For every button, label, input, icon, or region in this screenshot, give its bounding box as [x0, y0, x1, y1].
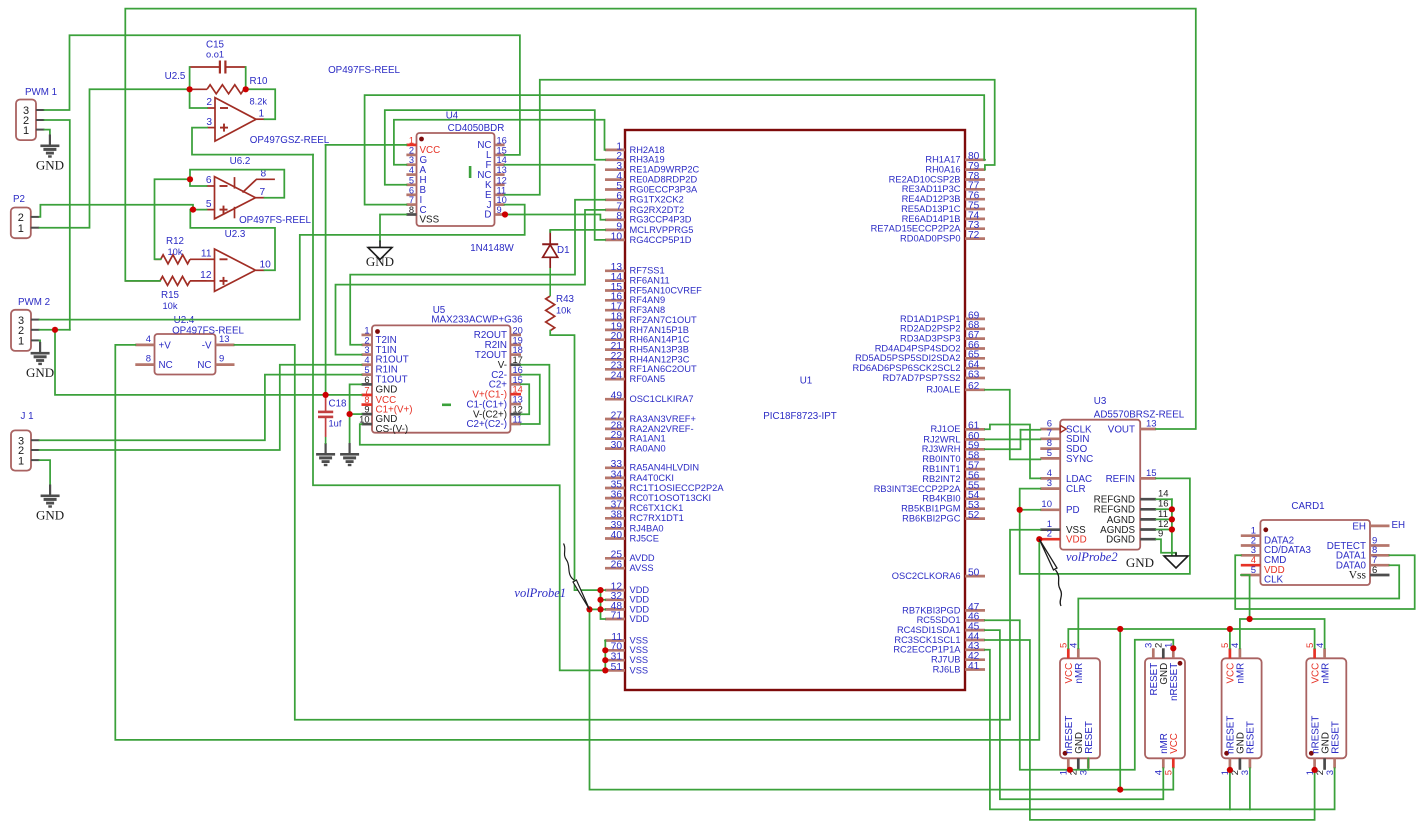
ground GND J1 — [41, 485, 60, 508]
U1 pin 25 AVDD — [605, 550, 655, 564]
U1 pin 34 RA4T0CKI — [605, 469, 674, 483]
U5 pin 20 R2OUT — [474, 325, 523, 341]
svg-text:8.2k: 8.2k — [250, 97, 268, 107]
wire net J1.1 gnd — [40, 460, 51, 494]
wire U6 RESET riser — [1087, 758, 1089, 770]
buffer U4 CD4050BDR — [417, 111, 505, 227]
U1 pin 26 AVSS — [605, 560, 654, 574]
junction VDD pin12 node — [597, 587, 603, 593]
U4 pin 11 E — [485, 185, 506, 201]
U1 pin 73 RE7AD15ECCP2P2A — [871, 220, 985, 234]
svg-text:4: 4 — [409, 165, 414, 175]
svg-text:13: 13 — [219, 334, 230, 345]
U1 pin 7 RG2RX2DT2 — [605, 201, 684, 215]
PWM1 pin 2 — [23, 115, 45, 127]
U1 pin 32 VDD — [605, 591, 649, 605]
wire net RC5SDO1 reset-A — [985, 620, 1173, 770]
svg-text:5: 5 — [1047, 448, 1052, 459]
U1 pin 21 RH5AN13P3B — [605, 341, 689, 355]
U2.3 pin stubs — [200, 248, 271, 281]
svg-text:2: 2 — [206, 97, 212, 108]
U3 pin 15 REFIN — [1106, 468, 1157, 485]
svg-text:RE2AD10CSP2B: RE2AD10CSP2B — [889, 174, 961, 184]
wire net U2.5 in+ to VSS — [192, 128, 313, 155]
U1 pin 36 RC0T1OSOT13CKI — [605, 490, 711, 504]
P2 pin 2 — [18, 212, 40, 224]
svg-text:10k: 10k — [556, 306, 571, 316]
svg-text:VDD: VDD — [630, 595, 650, 605]
wire VDD bus — [601, 590, 606, 619]
PWM1 pin 1 — [23, 125, 45, 137]
svg-text:13: 13 — [513, 395, 523, 405]
svg-text:5: 5 — [206, 199, 212, 210]
svg-text:1: 1 — [23, 125, 29, 137]
U1 pin 16 RF4AN9 — [605, 292, 665, 306]
svg-text:U2.4: U2.4 — [174, 315, 195, 326]
U1 pin 47 RB7KBI3PGD — [902, 602, 985, 616]
svg-text:RC3SCK1SCL1: RC3SCK1SCL1 — [894, 635, 960, 645]
U3 pin 14 REFGND — [1094, 489, 1169, 506]
U1 pin 1 RH2A18 — [605, 141, 665, 155]
resistor R15 10k — [160, 276, 190, 285]
U5 pin 15 C2+ — [489, 375, 523, 391]
U8 pin-1 indicator dot — [1224, 751, 1229, 756]
U1 pin 53 RB5KBI1PGM — [901, 500, 985, 513]
U3 pin 7 SDIN — [1040, 428, 1089, 445]
junction U3 gnd bus node 12 — [1169, 526, 1175, 532]
resistor R10 8.2k — [207, 85, 244, 94]
U8 pin 5 VCC — [1220, 643, 1237, 684]
wire net PWM2.3 to U4 J — [40, 205, 525, 320]
connector P2 — [11, 194, 31, 238]
svg-text:11: 11 — [201, 248, 212, 259]
ground GND C18 — [316, 443, 335, 466]
junction U5 GND node — [347, 411, 353, 417]
U1 pin 14 RF6AN11 — [605, 272, 670, 286]
svg-text:8: 8 — [146, 354, 151, 365]
svg-text:VDD: VDD — [1066, 535, 1087, 546]
U1 pin 57 RB1INT1 — [922, 461, 985, 475]
U1 pin 80 RH1A17 — [925, 151, 985, 165]
U9 pin 3 RESET — [1325, 721, 1342, 775]
U3 pin 3 CLR — [1040, 478, 1085, 495]
junction VDD pin48 node — [597, 606, 603, 612]
U4 pin 7 C — [406, 195, 426, 216]
U4 pin 16 NC — [477, 135, 507, 151]
wire U8 RESET drop — [1249, 768, 1251, 809]
svg-text:RH4AN12P3C: RH4AN12P3C — [630, 354, 690, 364]
svg-text:MCLRVPPRG5: MCLRVPPRG5 — [630, 225, 694, 235]
wire U8 nRESET drop — [1229, 770, 1231, 810]
wire net U4 A to RH2A18 — [394, 120, 605, 165]
U1 pin 56 RB2INT2 — [922, 470, 985, 484]
junction VCC bus U8 node — [1227, 626, 1233, 632]
wire net RJ1OE to SCLK LDAC — [985, 425, 1040, 479]
probe volProbe2 — [1039, 539, 1061, 606]
junction U3 gnd bus node 16 — [1169, 506, 1175, 512]
wire net RX2 to R1OUT — [336, 210, 606, 355]
U1 pin 42 RJ7UB — [931, 651, 985, 665]
svg-text:C2+(C2-): C2+(C2-) — [466, 419, 507, 430]
svg-text:VCC: VCC — [1169, 733, 1180, 754]
svg-text:U2.5: U2.5 — [165, 71, 186, 82]
U1 pin 70 VSS — [605, 642, 648, 656]
svg-text:GND: GND — [36, 508, 64, 523]
U1 pin 54 RB4KBI0 — [922, 490, 985, 504]
svg-text:12: 12 — [200, 270, 212, 281]
svg-text:71: 71 — [611, 610, 623, 621]
wire AGNDS tap — [1156, 529, 1172, 531]
svg-text:RJ4BA0: RJ4BA0 — [630, 523, 664, 533]
svg-text:8: 8 — [409, 205, 414, 215]
U8 pin 1 nRESET — [1220, 716, 1237, 776]
svg-text:14: 14 — [497, 155, 507, 165]
svg-text:15: 15 — [1146, 468, 1157, 479]
svg-text:CS-(V-): CS-(V-) — [376, 424, 409, 435]
svg-text:9: 9 — [364, 405, 369, 415]
ground GND U5 — [340, 443, 359, 466]
U4 pin 9 D — [484, 205, 504, 221]
svg-text:REFIN: REFIN — [1106, 474, 1135, 485]
svg-text:RA5AN4HLVDIN: RA5AN4HLVDIN — [630, 463, 700, 473]
U5 pin 10 CS-(V-) — [359, 415, 408, 436]
svg-text:CLR: CLR — [1066, 484, 1086, 495]
U1 pin 52 RB6KBI2PGC — [902, 510, 985, 524]
U4 pin-1 indicator dot — [419, 137, 424, 142]
wire net U2.3 out to in+ — [190, 210, 275, 271]
svg-text:CD4050BDR: CD4050BDR — [448, 123, 505, 134]
CARD1 pin 9 DETECT — [1327, 535, 1390, 552]
U3 pin 12 AGNDS — [1100, 519, 1168, 536]
junction CLK nMR node — [1247, 616, 1253, 622]
wire net RC2ECCP1P1A reset-CD — [985, 650, 1335, 810]
svg-text:RD0AD0PSP0: RD0AD0PSP0 — [900, 234, 960, 244]
svg-text:RE0AD8RDP2D: RE0AD8RDP2D — [630, 175, 698, 185]
U2.5 pin stubs — [206, 97, 264, 128]
U1 pin 66 RD4AD4PSP4SDO2 — [875, 340, 985, 354]
svg-text:3: 3 — [1079, 770, 1090, 775]
svg-text:GND: GND — [26, 365, 54, 380]
svg-text:1: 1 — [259, 108, 265, 119]
wire net U6.2 loop — [190, 170, 284, 198]
U1 pin 55 RB3INT3ECCP2P2A — [874, 480, 985, 494]
svg-text:volProbe1: volProbe1 — [514, 586, 566, 600]
svg-text:RJ5CE: RJ5CE — [630, 533, 659, 543]
CARD1 pin 2 CD/DATA3 — [1241, 535, 1312, 556]
U4 pin 6 I — [406, 185, 422, 206]
U4 pin 15 L — [486, 145, 507, 161]
svg-text:U1: U1 — [800, 376, 813, 387]
CARD1 pin 5 CLK — [1241, 565, 1284, 586]
svg-text:RB6KBI2PGC: RB6KBI2PGC — [902, 514, 961, 524]
svg-text:10: 10 — [1041, 499, 1052, 510]
svg-text:11: 11 — [513, 415, 523, 425]
wire VDD pin48 tap — [601, 608, 606, 610]
wire net nMR-A to DATA0 — [1078, 565, 1399, 648]
svg-text:J 1: J 1 — [20, 411, 33, 422]
U1 pin 20 RH6AN14P1C — [605, 331, 690, 345]
U5 pin 1 T2IN — [362, 325, 397, 346]
svg-text:1: 1 — [18, 455, 24, 467]
svg-text:OSC1CLKIRA7: OSC1CLKIRA7 — [630, 394, 694, 404]
svg-text:12: 12 — [513, 405, 523, 415]
U1 pin 67 RD3AD3PSP3 — [900, 330, 985, 344]
wire net RC4SDI1SDA1 to U7 nMR — [985, 630, 1163, 799]
svg-text:RH7AN15P1B: RH7AN15P1B — [630, 325, 689, 335]
svg-text:52: 52 — [968, 510, 980, 521]
junction U4 D node — [502, 211, 508, 217]
svg-text:1: 1 — [364, 325, 369, 335]
svg-text:RC1T1OSIECCP2P2A: RC1T1OSIECCP2P2A — [630, 483, 725, 493]
svg-text:EH: EH — [1392, 520, 1406, 531]
svg-text:RESET: RESET — [1084, 721, 1095, 754]
ground GND U3 — [1164, 553, 1188, 569]
svg-text:NC: NC — [159, 360, 173, 371]
PWM2 pin 1 — [18, 336, 40, 348]
svg-text:OP497FS-REEL: OP497FS-REEL — [328, 65, 400, 76]
svg-text:VSS: VSS — [630, 665, 649, 675]
wire nMR C-D link — [1240, 619, 1325, 648]
svg-text:1N4148W: 1N4148W — [470, 243, 514, 254]
svg-text:RG2RX2DT2: RG2RX2DT2 — [630, 205, 685, 215]
svg-text:RF1AN6C2OUT: RF1AN6C2OUT — [630, 364, 697, 374]
svg-text:CLK: CLK — [1264, 575, 1284, 586]
svg-text:volProbe2: volProbe2 — [1066, 550, 1118, 564]
junction VSS pin70 node — [602, 647, 608, 653]
U5 pin 17 V- — [498, 355, 523, 371]
junction U9 nRESET node — [1312, 767, 1318, 773]
wire VCC bus of reset chips — [1068, 629, 1314, 648]
U4 pin 1 VCC — [406, 135, 440, 156]
CARD1 pin 8 DATA1 — [1336, 545, 1390, 562]
svg-text:1: 1 — [409, 135, 414, 145]
U7 pin 2 GND — [1154, 643, 1171, 685]
wire net U4 F to RG4 — [505, 165, 605, 240]
svg-text:RG4CCP5P1D: RG4CCP5P1D — [630, 235, 692, 245]
wire VDD probe tap — [590, 608, 606, 610]
svg-text:6: 6 — [206, 175, 212, 186]
U5 net-label dash — [442, 404, 451, 407]
diode D1 1N4148W — [470, 230, 569, 268]
svg-text:5: 5 — [364, 365, 369, 375]
svg-text:3: 3 — [364, 345, 369, 355]
U1 pin 44 RC3SCK1SCL1 — [894, 631, 985, 645]
svg-text:AVSS: AVSS — [630, 563, 654, 573]
svg-text:RJ0ALE: RJ0ALE — [926, 385, 960, 395]
svg-text:RF6AN11: RF6AN11 — [630, 276, 670, 286]
svg-text:10: 10 — [260, 259, 272, 270]
PWM2 pin 3 — [18, 315, 40, 327]
svg-text:RF4AN9: RF4AN9 — [630, 295, 666, 305]
U1 pin 28 RA2AN2VREF- — [605, 420, 694, 434]
U3 pin 4 LDAC — [1040, 468, 1092, 485]
junction U6.2 in+ node — [190, 207, 196, 213]
svg-text:RG0ECCP3P3A: RG0ECCP3P3A — [630, 184, 698, 194]
junction U6 nRESET node — [1067, 767, 1073, 773]
wire net U4 D to RG3 — [505, 215, 605, 220]
svg-text:1uf: 1uf — [329, 419, 342, 429]
U3 pin 9 DGND — [1106, 529, 1163, 546]
svg-text:AD5570BRSZ-REEL: AD5570BRSZ-REEL — [1094, 410, 1185, 421]
svg-text:10k: 10k — [163, 301, 178, 311]
svg-text:RJ1OE: RJ1OE — [931, 424, 961, 434]
U3 pin 5 SYNC — [1040, 448, 1093, 465]
svg-text:RJ7UB: RJ7UB — [931, 655, 960, 665]
svg-text:nMR: nMR — [1320, 663, 1331, 684]
U1 pin 9 MCLRVPPRG5 — [605, 221, 693, 235]
svg-text:4: 4 — [364, 355, 369, 365]
U6 pin 4 nMR — [1069, 643, 1086, 684]
U1 pin 37 RC6TX1CK1 — [605, 500, 683, 513]
wire net RC3SCK1SCL1 to U9 nRESET — [985, 640, 1315, 820]
svg-text:CARD1: CARD1 — [1291, 501, 1324, 512]
svg-text:20: 20 — [513, 325, 523, 335]
U1 pin 10 RG4CCP5P1D — [605, 231, 692, 245]
svg-text:RE4AD12P3B: RE4AD12P3B — [902, 194, 961, 204]
svg-text:51: 51 — [611, 662, 623, 673]
U1 pin 40 RJ5CE — [605, 530, 659, 544]
U4 pin 12 K — [485, 175, 507, 191]
U1 pin 59 RJ3WRH — [922, 441, 985, 455]
wire SCLK tap — [1021, 429, 1041, 431]
svg-text:RE3AD11P3C: RE3AD11P3C — [902, 184, 961, 194]
U1 pin 30 RA0AN0 — [605, 440, 666, 454]
svg-text:RG3CCP4P3D: RG3CCP4P3D — [630, 215, 692, 225]
U7 pin 4 nMR — [1154, 733, 1171, 775]
svg-text:OSC2CLKORA6: OSC2CLKORA6 — [892, 571, 961, 581]
U7 pin 1 nRESET — [1164, 643, 1181, 701]
U5 pin 4 R1IN — [362, 355, 398, 376]
svg-text:RD5AD5PSP5SDI2SDA2: RD5AD5PSP5SDI2SDA2 — [855, 353, 960, 363]
ground GND U4 — [368, 241, 392, 260]
svg-text:RH5AN13P3B: RH5AN13P3B — [630, 345, 689, 355]
wire AGND tap — [1156, 518, 1172, 520]
svg-text:49: 49 — [611, 391, 623, 402]
svg-text:RJ2WRL: RJ2WRL — [923, 434, 960, 444]
svg-text:VOUT: VOUT — [1108, 424, 1135, 435]
U1 pin 3 RE1AD9WRP2C — [605, 161, 700, 175]
PWM1 pin 3 — [23, 105, 45, 117]
svg-text:RD7AD7PSP7SS2: RD7AD7PSP7SS2 — [882, 373, 960, 383]
wire REFGND14 tap — [1156, 498, 1172, 500]
svg-text:RA1AN1: RA1AN1 — [630, 434, 666, 444]
U5 pin 3 R1OUT — [362, 345, 409, 366]
U5 pin 6 GND — [362, 375, 398, 396]
svg-text:5: 5 — [1251, 565, 1256, 576]
svg-text:9: 9 — [219, 354, 224, 365]
svg-text:RH1A17: RH1A17 — [925, 155, 960, 165]
svg-text:19: 19 — [513, 335, 523, 345]
wire net U2.5 out loop — [246, 89, 276, 119]
wire net -V — [235, 345, 1041, 720]
U1 pin 61 RJ1OE — [931, 421, 985, 435]
U9 pin-1 indicator dot — [1309, 751, 1314, 756]
svg-text:Vss: Vss — [1349, 569, 1367, 581]
svg-text:GND: GND — [376, 384, 398, 395]
svg-text:VDD: VDD — [630, 614, 650, 624]
wire net RJ2WRL to SDIN — [985, 438, 1040, 440]
wire net TX2 to T1IN — [350, 200, 605, 345]
U1 pin 58 RB0INT0 — [922, 451, 985, 465]
wire VSS bus — [604, 641, 606, 671]
svg-text:RF3AN8: RF3AN8 — [630, 305, 666, 315]
U1 pin 29 RA1AN1 — [605, 430, 666, 444]
svg-text:D: D — [484, 210, 491, 221]
wire DGND jog — [1156, 539, 1176, 556]
U2.4 pin 8 NC — [135, 354, 172, 371]
reset supervisor U7 — [1145, 658, 1185, 758]
svg-text:1: 1 — [18, 223, 24, 235]
reset supervisor U6 — [1060, 658, 1100, 758]
U3 SCLK clock mark — [1060, 425, 1066, 432]
U9 pin 1 nRESET — [1305, 716, 1322, 776]
svg-text:PIC18F8723-IPT: PIC18F8723-IPT — [763, 411, 837, 422]
svg-text:RF5AN10CVREF: RF5AN10CVREF — [630, 285, 703, 295]
junction VDD rail tie node — [1117, 787, 1123, 793]
U6 pin 5 VCC — [1059, 643, 1076, 684]
svg-text:RH0A16: RH0A16 — [925, 165, 960, 175]
U2.4 pin 13 -V — [202, 334, 235, 351]
wire net inverting to U2.5 in- — [190, 89, 207, 108]
svg-text:RH6AN14P1C: RH6AN14P1C — [630, 335, 690, 345]
capacitor C18 1uf — [318, 395, 347, 437]
svg-text:NC: NC — [197, 360, 211, 371]
svg-text:RJ6LB: RJ6LB — [933, 664, 961, 674]
junction U3 VDD probe node — [1036, 536, 1042, 542]
U1 pin 46 RC5SDO1 — [917, 612, 985, 626]
svg-text:RA2AN2VREF-: RA2AN2VREF- — [630, 424, 694, 434]
reset supervisor U8 — [1222, 658, 1262, 758]
wire net RJ0ALE to SYNC — [985, 390, 1040, 460]
U1 pin 62 RJ0ALE — [926, 381, 985, 395]
op-amp U2.3 — [215, 249, 256, 291]
wire net U4 VSS to ground — [380, 215, 406, 241]
svg-text:13: 13 — [1146, 418, 1157, 429]
U1 pin 23 RF1AN6C2OUT — [605, 361, 697, 375]
U1 pin 2 RH3A19 — [605, 151, 665, 165]
DAC U3 AD5570BRSZ-REEL — [1060, 396, 1185, 550]
svg-text:EH: EH — [1352, 521, 1366, 532]
svg-text:RD6AD6PSP6SCK2SCL2: RD6AD6PSP6SCK2SCL2 — [853, 363, 961, 373]
probe volProbe1 — [564, 544, 590, 610]
wire net VDD to bottom rail — [590, 609, 1174, 789]
U1 pin 65 RD5AD5PSP5SDI2SDA2 — [855, 350, 985, 364]
wire net +V — [115, 345, 1039, 740]
wire net CLK to nMR C/D — [1241, 575, 1250, 619]
U1 pin 72 RD0AD0PSP0 — [900, 230, 985, 244]
U1 pin 77 RE3AD11P3C — [902, 181, 985, 195]
svg-text:7: 7 — [260, 187, 266, 198]
op-amp U6.2 OP497FS-REEL — [215, 177, 256, 219]
svg-text:62: 62 — [968, 381, 980, 392]
junction VDD pin32 node — [597, 597, 603, 603]
svg-text:U3: U3 — [1094, 396, 1107, 407]
wire REFGND16 tap — [1156, 508, 1172, 510]
svg-text:nRESET: nRESET — [1169, 663, 1180, 701]
U5 pin 19 R2IN — [485, 335, 523, 351]
U7 pin 3 RESET — [1144, 643, 1161, 696]
U1 pin 39 RJ4BA0 — [605, 520, 664, 534]
U4 pin 2 G — [406, 145, 427, 166]
svg-text:VSS: VSS — [420, 215, 440, 226]
junction VSS pin51 node — [602, 667, 608, 673]
U1 pin 79 RH0A16 — [925, 161, 985, 175]
svg-text:U6.2: U6.2 — [230, 156, 251, 167]
svg-text:RF0AN5: RF0AN5 — [630, 374, 666, 384]
svg-text:15: 15 — [513, 375, 523, 385]
U1 pin 4 RE0AD8RDP2D — [605, 171, 697, 185]
junction VCC node C18 — [323, 392, 329, 398]
